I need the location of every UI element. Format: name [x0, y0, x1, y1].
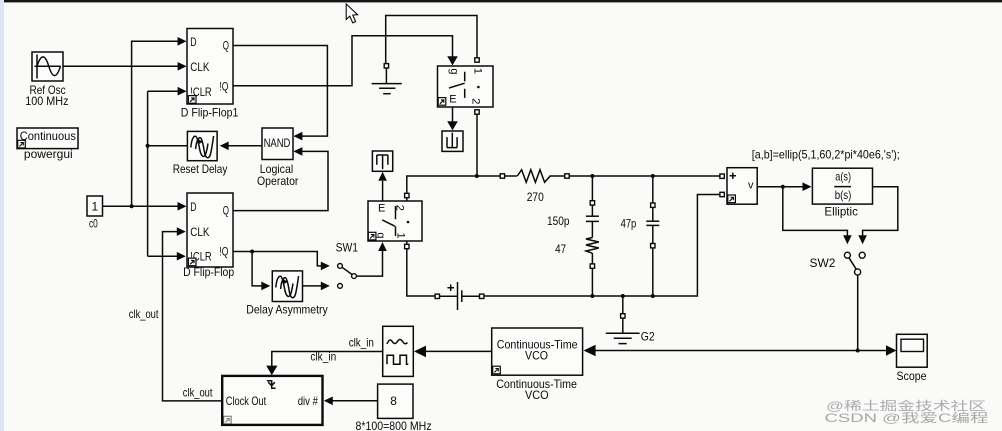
svg-text:Q: Q	[223, 38, 229, 52]
wire switch U2 to monitor2	[382, 181, 384, 201]
wire top rail right	[569, 175, 720, 177]
junction top rail C2 branch	[651, 174, 655, 178]
wire NAND output to Reset Delay	[229, 145, 263, 147]
wire SW2 pole down to feedback node	[857, 275, 859, 350]
svg-text:SW1: SW1	[336, 240, 359, 254]
port U3 minus	[720, 192, 724, 196]
svg-text:!Q: !Q	[219, 80, 228, 94]
svg-text:E: E	[378, 203, 385, 215]
port switch U1 port 1	[475, 58, 479, 62]
wire Delay Asymmetry output to SW1 lower contact	[303, 285, 322, 287]
svg-text:100 MHz: 100 MHz	[25, 94, 68, 108]
svg-text:2: 2	[469, 98, 481, 104]
battery V1	[435, 282, 484, 310]
svg-text:CLK: CLK	[190, 60, 209, 74]
svg-text:a(s): a(s)	[835, 169, 851, 183]
wire bottom rail	[484, 195, 720, 297]
switch block U1 (ideal switch, rotated)	[438, 66, 494, 107]
svg-text:clk_in: clk_in	[310, 350, 336, 364]
wire FF1 Q to NAND input 1	[233, 46, 327, 137]
svg-text:8*100=800 MHz: 8*100=800 MHz	[356, 419, 432, 431]
subsystem Continuous-Time VCO	[492, 328, 583, 375]
wire switch U2 lower port to battery	[407, 241, 435, 296]
svg-text:D Flip-Flop1: D Flip-Flop1	[181, 105, 239, 119]
delay block Reset Delay	[187, 131, 217, 160]
svg-text:150p: 150p	[547, 214, 570, 228]
junction FF2 !Q tee	[250, 250, 254, 254]
svg-text:Scope: Scope	[897, 369, 927, 383]
wire feedback node to VCO input	[596, 350, 858, 352]
manual switch SW1	[338, 264, 357, 289]
svg-text:Clock Out: Clock Out	[226, 394, 267, 408]
junction U3 output tee	[781, 185, 785, 189]
wire FF2 !Q branch to Delay Asymmetry	[252, 252, 262, 286]
wire U3 tee to SW2 left contact	[783, 187, 848, 236]
svg-text:b(s): b(s)	[835, 188, 852, 202]
svg-text:v: v	[748, 180, 754, 192]
logical operator NAND	[262, 128, 293, 160]
branch capacitor C1 150p and resistor R2 47	[586, 176, 599, 296]
wire switch U1 port 2 down to top rail	[476, 114, 478, 176]
wire div 8 to Clock Out div input	[332, 400, 377, 402]
svg-text:clk_out: clk_out	[129, 307, 159, 321]
switch block U2 (ideal switch, rotated)	[368, 201, 422, 241]
svg-text:D: D	[190, 35, 197, 49]
junction bottom rail C1	[590, 294, 594, 298]
port resistor R1 left	[500, 174, 504, 178]
wire constant branch to FF1 D	[132, 41, 179, 206]
svg-text:Delay Asymmetry: Delay Asymmetry	[246, 302, 327, 316]
svg-text:D: D	[190, 200, 197, 214]
wire Reset Delay output to FF1/FF2 !CLR	[148, 91, 188, 256]
wire Ref Osc to FF1 CLK	[63, 65, 179, 67]
wire feedback node to Scope	[858, 350, 888, 352]
resistor R1 270	[505, 170, 565, 183]
svg-text:powergui: powergui	[24, 147, 73, 161]
wire constant to FF2 D	[103, 205, 179, 207]
D flip-flop FF1	[187, 29, 233, 105]
svg-text:Elliptic: Elliptic	[824, 204, 858, 218]
port ground terminal	[384, 64, 388, 68]
manual switch SW2	[844, 252, 865, 275]
svg-text:Operator: Operator	[257, 174, 298, 188]
converter block sine-to-square	[383, 326, 414, 376]
svg-text:47p: 47p	[621, 217, 637, 231]
top window border	[4, 0, 1002, 2]
wire U3 output to Elliptic	[757, 186, 803, 188]
svg-text:E: E	[449, 93, 456, 105]
left window strip	[0, 0, 4, 431]
wire FF1 !Q to switch1 g input	[233, 36, 453, 86]
ground symbol top	[372, 68, 402, 94]
svg-text:1: 1	[395, 232, 407, 238]
wire switch U1 output to monitor1	[452, 107, 454, 122]
svg-text:8: 8	[390, 394, 397, 408]
sine source Ref Osc	[32, 52, 63, 81]
port switch U2 lower-right	[405, 244, 409, 248]
wire FF2 Q to NAND input 2	[233, 151, 328, 210]
svg-text:!Q: !Q	[219, 245, 228, 259]
junction bottom rail C2	[651, 294, 655, 298]
scope Scope	[897, 334, 928, 367]
svg-text:1: 1	[92, 200, 99, 214]
powergui block	[17, 128, 78, 149]
subsystem Clock Out	[222, 376, 322, 425]
junction Reset Delay tee	[146, 144, 150, 148]
svg-text:G2: G2	[641, 329, 655, 343]
svg-text:[a,b]=ellip(5,1,60,2*pi*40e6,': [a,b]=ellip(5,1,60,2*pi*40e6,'s');	[752, 147, 900, 161]
junction top rail and switch U1	[475, 174, 479, 178]
mouse cursor	[346, 4, 357, 23]
svg-text:g: g	[448, 68, 460, 74]
svg-text:NAND: NAND	[264, 136, 291, 150]
monitor block M1 (pulse display)	[442, 131, 463, 151]
port resistor R1 right	[565, 174, 569, 178]
svg-text:47: 47	[555, 242, 566, 256]
wire ground to switch U1 port 1	[386, 16, 477, 64]
delay block Delay Asymmetry	[272, 271, 302, 302]
junction constant branch	[130, 204, 134, 208]
junction bottom rail G2	[621, 294, 625, 298]
port switch U1 port 2	[475, 110, 479, 114]
svg-text:Continuous: Continuous	[20, 129, 76, 143]
D flip-flop FF2	[187, 193, 233, 267]
monitor block M2 (pulse display)	[372, 151, 392, 171]
svg-text:SW2: SW2	[810, 256, 836, 270]
wire FF2 !Q to SW1 upper contact	[233, 252, 322, 266]
wire SW1 pole to switch2 lower-left port	[356, 251, 382, 276]
constant div 8	[378, 384, 413, 418]
svg-text:clk_in: clk_in	[349, 336, 374, 350]
svg-text:Reset Delay: Reset Delay	[173, 162, 228, 176]
wire clk_out from Clock Out to FF2 CLK	[163, 232, 223, 401]
branch capacitor C2 47p	[646, 176, 659, 296]
svg-text:D Flip-Flop: D Flip-Flop	[183, 265, 234, 279]
svg-text:1: 1	[471, 68, 483, 74]
svg-text:div #: div #	[298, 394, 318, 408]
junction feedback node	[856, 349, 860, 353]
svg-text:270: 270	[527, 190, 544, 204]
wire Elliptic output to SW2 right contact	[863, 187, 898, 236]
svg-text:Q: Q	[223, 203, 229, 217]
junction top rail C1 branch	[590, 174, 594, 178]
port switch U2 upper-right	[405, 193, 409, 197]
constant c0	[87, 196, 103, 216]
svg-text:VCO: VCO	[525, 388, 549, 402]
wire VCO output to converter block	[424, 350, 492, 352]
svg-text:VCO: VCO	[525, 348, 548, 362]
wire switch U2 upper port to top rail	[407, 176, 500, 201]
wire converter output to Clock Out clk input	[272, 352, 383, 367]
transfer function Elliptic	[812, 168, 872, 204]
voltage measurement U3	[727, 168, 757, 205]
ground G2	[606, 296, 640, 344]
svg-text:c0: c0	[89, 217, 98, 231]
port U3 plus	[720, 174, 724, 178]
svg-text:CSDN @我爱C编程: CSDN @我爱C编程	[825, 410, 989, 425]
svg-text:CLK: CLK	[190, 225, 209, 239]
svg-text:clk_out: clk_out	[183, 386, 213, 400]
